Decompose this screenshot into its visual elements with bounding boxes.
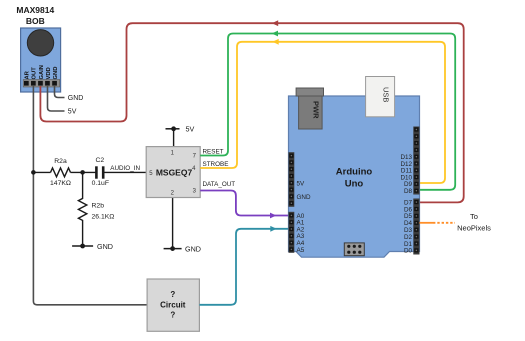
ICSP header bbox=[344, 243, 364, 256]
GND label (BOB) bbox=[68, 95, 84, 102]
Arduino Uno board bbox=[289, 96, 420, 257]
PWR connector bbox=[296, 88, 323, 129]
wire from node to resistor R2a bbox=[33, 171, 50, 173]
pin labels D13-D8 bbox=[400, 154, 412, 195]
Arduino right digital pin header lower bbox=[413, 199, 419, 255]
wire R2a to node B bbox=[71, 171, 96, 173]
AUDIO_IN net label bbox=[110, 165, 140, 172]
svg-text:D8: D8 bbox=[404, 188, 413, 195]
wire RESET MSGEQ7 pin7 to D8 (green) bbox=[200, 34, 455, 190]
MAX9814 BOB board U2 bbox=[21, 28, 61, 92]
svg-text:STROBE: STROBE bbox=[203, 161, 229, 168]
wire BOB GND pin to GND label bbox=[55, 86, 65, 98]
wire C2 to MSGEQ7 pin 5 bbox=[104, 171, 146, 173]
wire Circuit box to A2 (teal) bbox=[199, 229, 288, 305]
svg-text:Circuit: Circuit bbox=[160, 301, 186, 310]
svg-text:VDD: VDD bbox=[46, 67, 52, 79]
Arduino left power pin header bbox=[289, 152, 295, 207]
red wire arrowhead bbox=[272, 20, 278, 26]
pin label 5V bbox=[297, 180, 306, 187]
5V supply symbol (MSGEQ7) bbox=[166, 125, 195, 134]
svg-text:RESET: RESET bbox=[203, 149, 224, 156]
pin labels A0-A5 bbox=[297, 213, 305, 254]
BOB pin labels AR OUT GAIN VDD GND bbox=[24, 65, 59, 80]
USB connector bbox=[366, 77, 395, 117]
svg-text:DATA_OUT: DATA_OUT bbox=[203, 181, 236, 188]
svg-text:D0: D0 bbox=[404, 248, 413, 255]
svg-text:?: ? bbox=[170, 290, 175, 299]
svg-text:R2a: R2a bbox=[54, 158, 67, 165]
Arduino Uno label bbox=[336, 167, 373, 190]
svg-text:GND: GND bbox=[53, 67, 59, 80]
svg-text:GAIN: GAIN bbox=[39, 65, 45, 80]
C2 label bbox=[92, 157, 109, 187]
node A (junction dot audio) bbox=[31, 170, 36, 175]
microphone circle bbox=[27, 30, 53, 56]
yellow wire arrowhead bbox=[272, 39, 278, 45]
svg-text:Uno: Uno bbox=[345, 179, 364, 190]
pin labels D7-D0 bbox=[404, 199, 413, 254]
wire STROBE MSGEQ7 pin4 to D9 (yellow) bbox=[200, 42, 445, 183]
? Circuit ? box bbox=[147, 279, 199, 331]
svg-text:?: ? bbox=[170, 311, 175, 320]
wire DATA_OUT MSGEQ7 pin3 to A0 (purple) bbox=[200, 191, 288, 216]
ground symbol (MSGEQ7) bbox=[164, 245, 201, 254]
wire node to Circuit box (black) bbox=[33, 172, 147, 304]
svg-text:MAX9814: MAX9814 bbox=[16, 5, 54, 15]
svg-text:GND: GND bbox=[68, 95, 84, 102]
STROBE net label bbox=[203, 161, 229, 168]
svg-text:A5: A5 bbox=[297, 247, 305, 254]
resistor R2b bbox=[78, 172, 86, 246]
DATA_OUT net label bbox=[203, 181, 236, 188]
Arduino left analog pin header bbox=[289, 212, 295, 253]
pin label GND bbox=[297, 194, 311, 201]
ground symbol below R2b bbox=[72, 242, 113, 251]
svg-text:USB: USB bbox=[382, 87, 391, 102]
R2b label bbox=[92, 202, 115, 220]
svg-text:5V: 5V bbox=[297, 180, 306, 187]
svg-text:Arduino: Arduino bbox=[336, 167, 373, 178]
resistor R2a bbox=[51, 168, 71, 177]
RESET net label bbox=[203, 149, 224, 156]
svg-text:GND: GND bbox=[297, 194, 311, 201]
svg-text:C2: C2 bbox=[95, 157, 104, 164]
svg-text:OUT: OUT bbox=[32, 67, 38, 80]
MSGEQ7 pin numbers bbox=[149, 151, 196, 197]
svg-text:GND: GND bbox=[185, 245, 201, 254]
wire D4 to NeoPixels (orange) bbox=[420, 222, 456, 224]
wire GAIN to Arduino D7 (red) bbox=[40, 23, 463, 202]
wire BOB OUT pin down to audio node bbox=[32, 86, 34, 172]
svg-text:AUDIO_IN: AUDIO_IN bbox=[110, 165, 140, 172]
svg-text:PWR: PWR bbox=[312, 101, 321, 119]
purple wire arrowhead bbox=[270, 213, 276, 219]
5V label (BOB) bbox=[68, 109, 77, 116]
svg-text:To: To bbox=[470, 212, 478, 221]
svg-text:GND: GND bbox=[97, 242, 113, 251]
svg-text:MSGEQ7: MSGEQ7 bbox=[156, 167, 193, 177]
title MAX9814 BOB bbox=[16, 5, 54, 26]
op-amp U1 MSGEQ7 chip bbox=[146, 147, 200, 198]
green wire arrowhead bbox=[272, 31, 278, 37]
svg-text:AR: AR bbox=[24, 70, 30, 79]
wire MSGEQ7 pin2 to GND bbox=[172, 198, 174, 249]
svg-text:147KΩ: 147KΩ bbox=[50, 180, 71, 187]
wire BOB VDD pin to 5V label bbox=[48, 86, 65, 111]
svg-text:5V: 5V bbox=[186, 125, 195, 134]
svg-text:R2b: R2b bbox=[92, 202, 105, 209]
svg-text:NeoPixels: NeoPixels bbox=[457, 224, 491, 233]
svg-text:5V: 5V bbox=[68, 109, 77, 116]
svg-text:BOB: BOB bbox=[26, 16, 45, 26]
wire MSGEQ7 pin1 to 5V bbox=[173, 129, 175, 147]
capacitor C2 bbox=[96, 166, 103, 178]
BOB pin header strip bbox=[23, 80, 60, 88]
svg-text:26.1KΩ: 26.1KΩ bbox=[92, 213, 115, 220]
To NeoPixels label bbox=[457, 212, 491, 233]
R2a label bbox=[50, 158, 71, 187]
Arduino right digital pin header upper bbox=[413, 127, 419, 195]
node B (junction dot) bbox=[80, 170, 85, 175]
teal wire arrowhead bbox=[270, 226, 276, 232]
svg-text:0.1uF: 0.1uF bbox=[92, 180, 109, 187]
